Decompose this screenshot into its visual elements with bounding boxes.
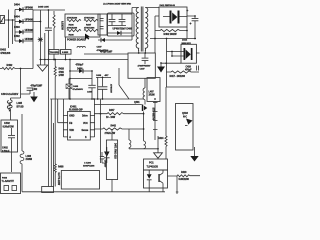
svg-text:C402: C402 — [4, 122, 10, 125]
svg-text:L407: L407 — [149, 90, 155, 93]
svg-text:R406: R406 — [69, 23, 75, 26]
svg-text:Sense: Sense — [82, 130, 89, 132]
svg-text:R417 - 10/1206: R417 - 10/1206 — [170, 75, 186, 78]
svg-text:D411 RBP30-06: D411 RBP30-06 — [160, 4, 176, 7]
svg-text:VDD: VDD — [69, 130, 74, 132]
svg-text:10 - 10W: 10 - 10W — [106, 117, 116, 119]
svg-text:2R2M: 2R2M — [149, 95, 155, 97]
svg-text:TLP421GR: TLP421GR — [147, 166, 159, 169]
svg-text:D406: D406 — [77, 68, 83, 71]
svg-text:POWER BOARD: POWER BOARD — [67, 38, 86, 41]
svg-text:UF5406: UF5406 — [25, 6, 34, 9]
svg-text:C410: C410 — [186, 65, 192, 68]
svg-text:R447: R447 — [109, 109, 115, 112]
svg-text:0.56uF: 0.56uF — [2, 150, 10, 153]
svg-text:470K/1206: 470K/1206 — [84, 27, 95, 30]
svg-text:D402: D402 — [14, 35, 20, 38]
svg-text:470K/1206: 470K/1206 — [67, 17, 78, 20]
svg-text:R424: R424 — [158, 137, 164, 140]
svg-text:D404: D404 — [14, 3, 20, 6]
svg-text:2R6M: 2R6M — [26, 158, 32, 161]
svg-text:1000P/1206: 1000P/1206 — [83, 166, 95, 168]
svg-text:R407: R407 — [86, 23, 92, 26]
svg-text:C408: C408 — [96, 74, 102, 77]
svg-text:R410: R410 — [59, 68, 65, 71]
svg-text:27K/A-2W: 27K/A-2W — [105, 132, 116, 135]
svg-text:C407: C407 — [140, 67, 146, 70]
svg-text:4700pF/2kV: 4700pF/2kV — [97, 49, 109, 52]
svg-text:D404: D404 — [14, 15, 20, 18]
svg-text:Q403: Q403 — [182, 112, 188, 115]
svg-text:UF5406: UF5406 — [25, 29, 34, 32]
svg-text:P403: P403 — [2, 177, 8, 180]
svg-text:UF5406: UF5406 — [25, 18, 34, 21]
svg-text:D465 C405: D465 C405 — [38, 5, 49, 8]
svg-text:4700PF/250V: 4700PF/250V — [138, 65, 151, 68]
svg-text:5.6K/1206: 5.6K/1206 — [179, 179, 190, 181]
svg-text:470K/1206: 470K/1206 — [84, 17, 95, 20]
svg-text:R408: R408 — [69, 33, 75, 36]
svg-text:TL-SA32T/T: TL-SA32T/T — [2, 180, 15, 183]
svg-text:GND: GND — [69, 116, 74, 118]
svg-text:STR-W6754: STR-W6754 — [152, 108, 155, 121]
svg-text:0.8 TS-1/2W: 0.8 TS-1/2W — [57, 173, 59, 186]
svg-text:0.56uF/2W: 0.56uF/2W — [3, 126, 15, 128]
svg-text:PC1: PC1 — [149, 162, 154, 165]
svg-text:470K/1W: 470K/1W — [109, 84, 112, 94]
svg-text:D403: D403 — [14, 26, 20, 29]
svg-text:C405: C405 — [73, 85, 79, 88]
svg-text:470/1206: 470/1206 — [0, 52, 11, 55]
svg-text:0.33/2W: 0.33/2W — [61, 21, 64, 30]
svg-text:4700pF: 4700pF — [76, 64, 84, 67]
svg-text:LIr-UP/3004 SIDE VIEW BRD: LIr-UP/3004 SIDE VIEW BRD — [103, 3, 132, 6]
svg-text:D412: D412 — [182, 39, 188, 42]
svg-text:470K/1206: 470K/1206 — [67, 27, 78, 30]
svg-text:IC401: IC401 — [70, 105, 77, 108]
svg-text:0.33/R: 0.33/R — [62, 52, 69, 54]
svg-text:C404 0.1uF/2kV: C404 0.1uF/2kV — [1, 93, 19, 96]
svg-text:R402 10/2W: R402 10/2W — [164, 33, 178, 36]
svg-text:R408: R408 — [58, 165, 64, 168]
svg-text:C407: C407 — [97, 46, 103, 49]
svg-text:Drive: Drive — [82, 116, 88, 118]
svg-text:R420: R420 — [181, 171, 187, 174]
svg-text:Q401: Q401 — [134, 101, 140, 104]
svg-text:UF4007/2kV D466: UF4007/2kV D466 — [113, 28, 133, 31]
svg-text:VCC: VCC — [83, 123, 88, 125]
svg-text:D471 FMG-22S: D471 FMG-22S — [113, 143, 116, 159]
svg-text:47uF/400V: 47uF/400V — [73, 88, 84, 91]
svg-text:UF5406: UF5406 — [25, 38, 34, 41]
svg-text:R442: R442 — [111, 124, 117, 127]
svg-text:R402: R402 — [7, 64, 13, 67]
svg-text:470K: 470K — [59, 71, 65, 74]
svg-text:470pF/1MF: 470pF/1MF — [31, 85, 43, 88]
svg-text:TN-S2R1: TN-S2R1 — [50, 52, 60, 54]
svg-text:1/4W: 1/4W — [59, 74, 65, 77]
svg-text:FB: FB — [69, 123, 72, 125]
svg-text:BT-2B: BT-2B — [17, 106, 24, 109]
svg-text:N-C: N-C — [183, 116, 187, 118]
svg-text:C406: C406 — [87, 91, 93, 94]
svg-text:C 1206: C 1206 — [84, 162, 92, 164]
